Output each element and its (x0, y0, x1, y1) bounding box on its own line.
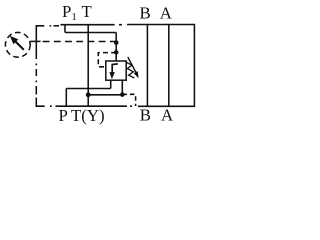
pilot line (dashed) from outlet to valve (98, 53, 116, 67)
svg-text:1: 1 (72, 12, 77, 23)
label A (top port) (160, 4, 172, 23)
svg-text:P: P (62, 2, 71, 21)
node: junction dot valve drain (120, 92, 125, 97)
wire: P bottom port up (65, 89, 67, 107)
node: junction dot gauge tap (114, 40, 119, 45)
label T (top port) (82, 2, 92, 21)
enclosure top dash-dot segment right of T (119, 24, 122, 26)
label A (bottom port) (161, 106, 173, 125)
valve V1 internal flow arrow (109, 64, 117, 79)
svg-text:P: P (59, 106, 68, 125)
wire: P horizontal to valve bottom (66, 88, 110, 90)
svg-text:B: B (140, 4, 151, 23)
label P (bottom port) (59, 106, 68, 125)
bottom face dash-dot dot (130, 105, 132, 107)
valve V1 adjustment arrow (128, 57, 139, 78)
label B (bottom port) (140, 106, 151, 125)
svg-text:A: A (160, 4, 172, 23)
valve V1 body (pressure valve square) (106, 61, 126, 80)
port line A (through passage) (168, 25, 170, 107)
node: junction dot on T line (86, 92, 91, 97)
port line T (through passage) (87, 25, 89, 107)
label T(Y) (bottom port) (71, 106, 105, 125)
wire: valve bottom-left vertical (110, 80, 112, 89)
wire: valve bottom-right to tank junction (121, 80, 123, 95)
pressure gauge PG1 needle arrow (10, 36, 24, 50)
label P1 (top port) (62, 2, 77, 23)
node: junction dot pilot tap (114, 50, 119, 55)
valve V1 spring (126, 62, 134, 78)
pressure gauge PG1 circle (dashed) (5, 32, 30, 57)
bottom mounting face line (P,T section) (56, 105, 128, 107)
svg-text:T(Y): T(Y) (71, 106, 105, 125)
enclosure left dash-dot edge (35, 31, 37, 95)
gauge measuring line (dashed) to P1 outlet (43, 41, 117, 43)
wire: P1 port down (64, 25, 66, 33)
wire: P1 horizontal to valve inlet (65, 32, 116, 34)
wire: tank horizontal connector (88, 94, 122, 96)
enclosure top-left dash-dot edge (36, 26, 59, 33)
B/A block outline (solid: top, right, bottom) (127, 25, 194, 107)
gauge connection line (solid stub) (30, 40, 40, 42)
drain line Y (dashed) (122, 94, 135, 106)
label B (top port) (140, 4, 151, 23)
svg-text:A: A (161, 106, 173, 125)
enclosure bottom-left dash-dot edge (36, 98, 52, 107)
top mounting face line (P1,T section) (61, 24, 115, 26)
port line B (through passage) (146, 25, 148, 107)
svg-text:T: T (82, 2, 92, 21)
svg-text:B: B (140, 106, 151, 125)
wire: valve inlet vertical (115, 33, 117, 62)
